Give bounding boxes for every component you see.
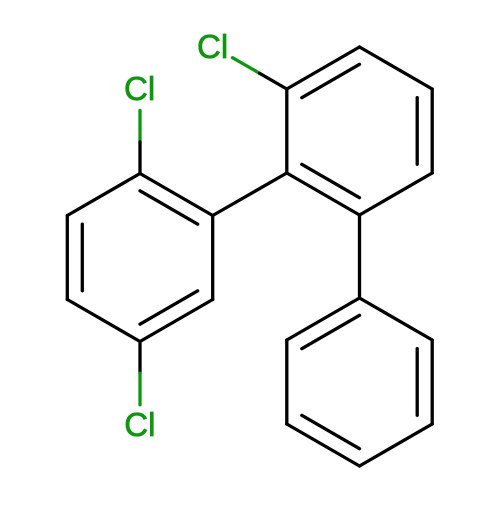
bond Cl-left green half	[138, 110, 141, 141]
ring B bond B4-B5	[67, 300, 140, 342]
ring B double bond inner B1-B2	[140, 191, 198, 224]
biphenyl bond B2-A3	[213, 173, 287, 216]
ring C double bond inner C3-C4	[302, 415, 360, 448]
ring C bond C1-C2	[287, 298, 360, 340]
bond Cl-top black half	[260, 73, 287, 89]
ring B bond B2-B3	[211, 216, 214, 300]
ring C bond C6-C1	[360, 298, 433, 340]
svg-text:Cl: Cl	[124, 70, 155, 107]
ring A bond A2-A3	[285, 89, 288, 173]
ring B bond B1-B2	[140, 174, 213, 216]
bond Cl-left black half	[138, 142, 141, 174]
biphenyl bond A4-C1	[358, 215, 361, 298]
ring B bond B6-B1	[67, 174, 140, 216]
bond Cl-top green half	[233, 58, 260, 74]
ring C bond C4-C5	[360, 424, 433, 466]
bond Cl-bottom black half	[138, 342, 141, 374]
ring A bond A4-A5	[360, 173, 433, 215]
ring A bond A6-A1	[360, 47, 433, 89]
svg-text:Cl: Cl	[197, 28, 228, 65]
ring C double bond inner C5-C6	[416, 349, 419, 416]
ring C bond C5-C6	[431, 340, 434, 424]
bond Cl-bottom green half	[138, 373, 141, 405]
ring B double bond inner B3-B4	[140, 291, 198, 324]
ring A bond A5-A6	[431, 89, 434, 173]
ring C bond C3-C4	[287, 424, 360, 466]
ring C double bond inner C1-C2	[302, 315, 360, 348]
ring B double bond inner B5-B6	[81, 224, 84, 291]
ring B bond B5-B6	[66, 216, 69, 300]
ring A bond A1-A2	[287, 47, 360, 89]
ring B bond B3-B4	[140, 300, 213, 342]
ring C bond C2-C3	[285, 340, 288, 424]
ring A double bond inner A1-A2	[302, 64, 360, 97]
ring A double bond inner A3-A4	[302, 164, 360, 197]
ring A double bond inner A5-A6	[416, 98, 419, 165]
svg-text:Cl: Cl	[124, 406, 155, 443]
ring A bond A3-A4	[287, 173, 360, 215]
